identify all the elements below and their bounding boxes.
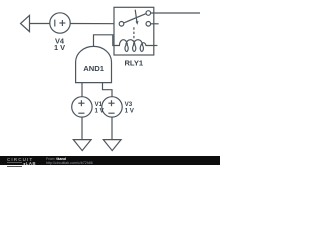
footer watermark bar: [0, 156, 220, 165]
svg-text:1 V: 1 V: [95, 107, 105, 114]
voltage source V4: [50, 13, 70, 33]
wire AND1 output to relay coil: [94, 35, 115, 47]
relay dashed link line: [133, 27, 135, 40]
wire V1 to ground: [81, 117, 83, 139]
relay coil: [114, 40, 154, 52]
relay actuation arrow: [135, 10, 138, 25]
relay left contact pin: [119, 22, 124, 27]
svg-text:1 V: 1 V: [54, 43, 65, 52]
svg-text:RLY1: RLY1: [124, 59, 143, 68]
svg-text:AND1: AND1: [83, 64, 104, 73]
wire from input arrow to V4: [30, 23, 51, 25]
relay right-middle contact stub: [151, 23, 159, 25]
relay RLY1 box: [114, 7, 154, 55]
ground symbol under V3: [103, 140, 121, 151]
voltage source V1: [72, 97, 92, 117]
voltage source V3: [102, 97, 122, 117]
and gate AND1: [76, 46, 112, 82]
relay top-right contact pin: [146, 11, 151, 16]
wire AND1 input B to V3: [103, 83, 113, 97]
wire relay top contact to right net end: [151, 12, 200, 14]
relay right-middle contact pin: [146, 22, 151, 27]
ground symbol under V1: [73, 140, 91, 151]
wire V3 to ground: [111, 117, 113, 139]
relay coil right pin stub: [154, 45, 158, 47]
wire V4 to relay left pin: [70, 23, 119, 25]
node IN terminal arrow: [21, 15, 30, 31]
relay switch arm: [124, 14, 147, 23]
wire AND1 input A to V1: [81, 83, 83, 97]
svg-text:1 V: 1 V: [125, 107, 135, 114]
